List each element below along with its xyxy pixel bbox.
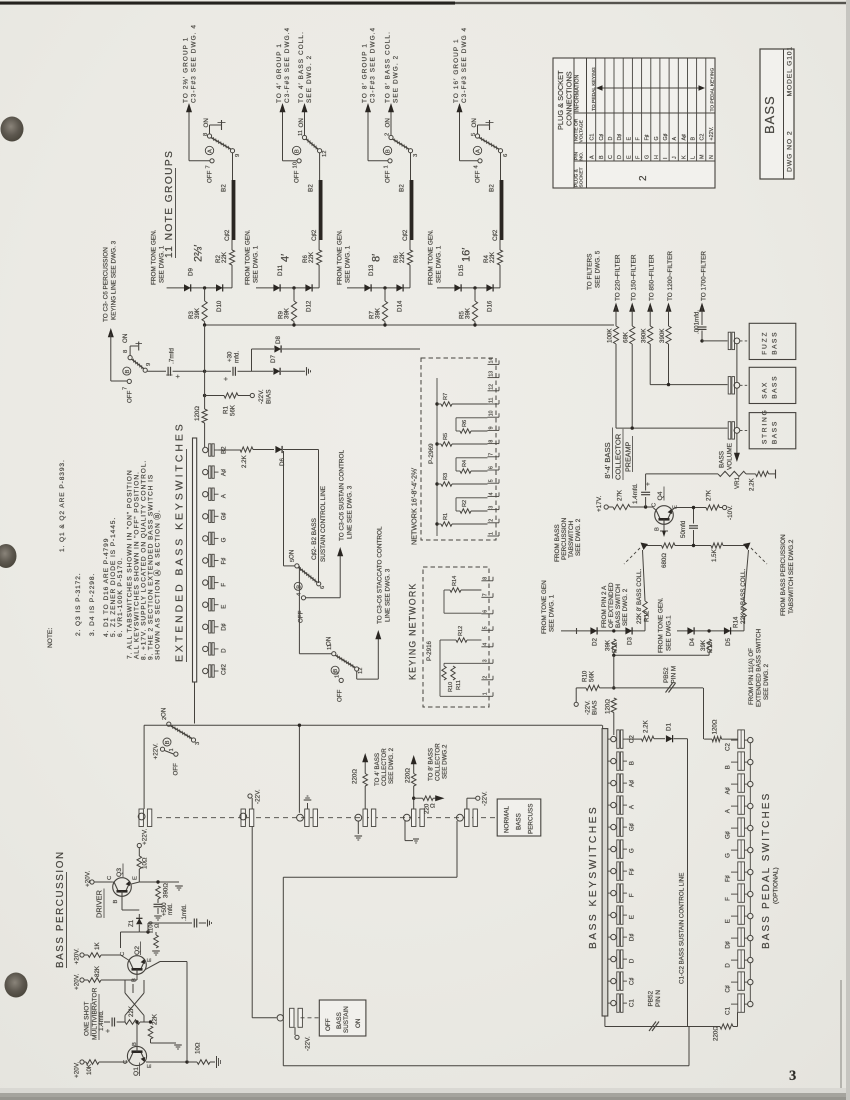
svg-text:C1: C1 [590,134,596,141]
svg-text:SEE DWG. 1: SEE DWG. 1 [549,594,556,632]
svg-text:B: B [386,149,392,153]
bass keyswitch F&#9839; [608,870,611,872]
svg-text:14: 14 [489,358,495,364]
ext keyswitch D [203,646,208,651]
svg-text:NORMAL: NORMAL [504,806,511,833]
svg-text:C♯2: C♯2 [224,229,231,241]
svg-text:2: 2 [385,133,391,136]
svg-text:D12: D12 [306,300,313,312]
svg-text:8′: 8′ [371,254,383,262]
svg-text:50mfd: 50mfd [680,520,687,538]
svg-text:TO 850~FILTER: TO 850~FILTER [649,254,656,301]
svg-text:MULTIVIBRATOR: MULTIVIBRATOR [92,987,99,1040]
svg-text:LINE SEE DWG. 3: LINE SEE DWG. 3 [385,568,392,622]
svg-text:SEE DWG. 1: SEE DWG. 1 [436,245,443,283]
svg-text:Ω: Ω [430,803,437,808]
svg-text:TO PEDAL KEYING: TO PEDAL KEYING [709,68,715,112]
svg-text:6: 6 [489,466,495,469]
svg-text:OFF: OFF [127,390,134,403]
svg-text:22K: 22K [489,251,496,263]
svg-text:TO 8′ BASS: TO 8′ BASS [428,748,435,781]
svg-text:FROM TONE GEN: FROM TONE GEN [541,580,548,634]
svg-text:1.5K: 1.5K [711,548,718,562]
R10 56K / -22V bias / PB52 PIN M [613,655,615,688]
svg-text:SEE DWG. 2: SEE DWG. 2 [388,747,395,784]
svg-text:F: F [221,583,228,587]
ext keyswitch G&#9839; [203,514,208,519]
NORMAL BASS PERCUSS box [497,799,541,836]
svg-text:S T R I N G: S T R I N G [762,410,769,444]
svg-text:+22V.: +22V. [153,743,160,760]
ext keyswitch D&#9839; [203,624,208,629]
svg-text:ON: ON [203,118,210,127]
svg-text:C3-F#3 SEE DWG 4: C3-F#3 SEE DWG 4 [461,27,468,103]
svg-text:G♯: G♯ [725,831,732,839]
one shot Q1 [127,1046,146,1065]
svg-text:Q2: Q2 [134,946,141,955]
svg-text:PIN M: PIN M [671,666,678,684]
svg-text:22K: 22K [221,251,228,263]
svg-text:+: + [175,374,182,378]
svg-text:+20V.: +20V. [74,1061,81,1078]
svg-text:D11: D11 [277,265,284,276]
svg-text:MODEL G101: MODEL G101 [787,46,794,96]
svg-text:B2: B2 [399,184,406,192]
svg-text:FROM BASS PERCUSSION: FROM BASS PERCUSSION [780,534,787,616]
svg-text:EXTENDED BASS KEYSWITCHES: EXTENDED BASS KEYSWITCHES [175,421,186,662]
svg-text:VR1: VR1 [734,476,741,489]
svg-text:680Ω: 680Ω [661,553,668,568]
svg-text:C♯2- B2 BASS: C♯2- B2 BASS [311,518,318,560]
C2 2.2K and D1 to sustain line [627,738,641,740]
svg-text:ON: ON [471,118,478,127]
svg-text:B: B [125,370,131,374]
svg-text:.7mfd: .7mfd [169,348,176,364]
svg-text:SHOWN AS SECTION Ⓐ & SECTION Ⓑ: SHOWN AS SECTION Ⓐ & SECTION Ⓑ. [154,509,162,660]
svg-text:R4: R4 [462,460,468,467]
svg-text:22K: 22K [152,1013,159,1025]
svg-text:R11: R11 [612,642,619,653]
svg-text:R5: R5 [443,433,449,440]
svg-text:TO 4′ BASS: TO 4′ BASS [374,753,381,786]
svg-text:C♯2: C♯2 [492,229,499,241]
svg-text:1: 1 [489,532,495,535]
svg-text:390K: 390K [641,328,648,343]
svg-text:6: 6 [320,586,326,589]
svg-text:ON: ON [298,118,305,127]
svg-text:K: K [681,155,687,159]
svg-text:G: G [629,848,636,853]
svg-text:COLLECTOR: COLLECTOR [381,748,388,786]
svg-text:A: A [208,149,214,153]
svg-text:11: 11 [298,130,304,136]
svg-text:BASS KEYSWITCHES: BASS KEYSWITCHES [588,805,599,949]
svg-text:Q1: Q1 [133,1067,140,1076]
C1-C2 bass sustain control line [687,739,689,1027]
svg-text:SEE DWG. 1: SEE DWG. 1 [345,245,352,283]
svg-text:DRIVER: DRIVER [95,890,104,918]
bass pedal switch F&#9839; [738,862,745,880]
svg-text:11 NOTE GROUPS: 11 NOTE GROUPS [164,150,175,258]
svg-text:-22V.: -22V. [482,791,489,806]
bass pedal switch D&#9839; [738,928,745,946]
svg-text:OFF: OFF [207,170,214,183]
resistor R2 2.2K and diode D6 [219,449,241,451]
svg-text:R14: R14 [733,616,740,628]
svg-text:.001mfd.: .001mfd. [694,310,701,334]
svg-text:D2: D2 [592,638,599,646]
bass keyswitch C2 [608,738,611,740]
svg-text:R14: R14 [452,576,458,586]
svg-text:ONE SHOT: ONE SHOT [84,1002,91,1036]
svg-text:+: + [223,377,230,381]
svg-text:SEE DWG. 2: SEE DWG. 2 [763,663,770,700]
svg-text:COLLECTOR: COLLECTOR [614,433,623,480]
ext keyswitch F&#9839; [203,558,208,563]
svg-text:F: F [629,893,636,897]
switch B (5 ON / 6 / OFF 4) sustain [295,564,299,568]
svg-text:SEE DWG. 2: SEE DWG. 2 [575,518,582,556]
svg-text:D: D [617,155,623,159]
svg-text:4: 4 [489,492,495,495]
1700 filter column with .001mfd [699,303,705,312]
bass keyswitch D [608,958,611,960]
50mfd cap [693,508,695,524]
svg-text:2: 2 [638,175,649,181]
bass pedal switch G [738,840,745,858]
svg-text:PIN N: PIN N [655,990,662,1007]
svg-text:A: A [672,137,678,141]
svg-text:TO 1700~FILTER: TO 1700~FILTER [700,251,707,301]
sax bass line [650,384,727,386]
svg-text:C1-C2 BASS SUSTAIN CONTROL LIN: C1-C2 BASS SUSTAIN CONTROL LINE [679,873,686,984]
svg-text:F♯: F♯ [629,868,636,875]
svg-text:D14: D14 [397,300,404,312]
punch hole middle [0,544,17,568]
svg-text:F♯: F♯ [725,875,732,882]
bass pedal switch C1 [738,994,745,1012]
page edge marks [0,2,455,5]
extended keyswitch bus bar [193,438,197,682]
svg-text:SEE DWG. 2: SEE DWG. 2 [393,55,400,103]
svg-text:mfd.: mfd. [234,351,241,363]
bass sustain tab + box [290,1008,294,1027]
svg-text:F: F [725,897,732,901]
svg-text:8. +17V. SUPPLY LOCATED ON QUA: 8. +17V. SUPPLY LOCATED ON QUALITY CONTR… [141,460,148,660]
svg-text:D♯: D♯ [221,623,228,631]
punch hole bottom [5,973,28,998]
svg-text:8: 8 [203,133,209,136]
svg-text:SUSTAIN: SUSTAIN [343,1006,350,1033]
svg-text:C♯2: C♯2 [402,229,409,241]
svg-text:E: E [629,915,636,919]
ext keyswitch F [203,580,208,585]
svg-text:COLLECTOR: COLLECTOR [435,743,442,781]
svg-text:B: B [655,527,661,531]
svg-text:BIAS: BIAS [592,700,599,715]
svg-text:3: 3 [483,659,489,662]
svg-text:OFF: OFF [294,170,301,183]
svg-text:-10V.: -10V. [727,505,734,520]
cross coupling [125,993,144,1015]
svg-text:ON: ON [289,550,296,559]
svg-text:B: B [691,137,697,141]
ext keyswitch G [203,536,208,541]
svg-text:ON: ON [326,637,333,646]
svg-text:A♯: A♯ [221,469,228,476]
svg-text:2.2K: 2.2K [241,454,248,468]
svg-text:4′: 4′ [280,254,292,262]
svg-text:SEE DWG.2: SEE DWG.2 [442,744,449,779]
svg-text:B2: B2 [308,184,315,192]
svg-text:B: B [725,765,732,769]
svg-text:12: 12 [358,668,364,674]
bass keyswitch E [608,914,611,916]
svg-text:BASS SWITCH: BASS SWITCH [615,584,622,628]
svg-text:22K 8′ BASS COLL.: 22K 8′ BASS COLL. [636,569,643,624]
svg-text:B: B [629,761,636,765]
svg-text:VOLTAGE: VOLTAGE [579,119,585,142]
svg-text:OFF: OFF [385,170,392,183]
svg-text:SEE DWG. 2: SEE DWG. 2 [306,55,313,103]
svg-text:9. THE 2 SECTION EXTENDED BASS: 9. THE 2 SECTION EXTENDED BASS SWITCH IS [148,474,155,660]
ext keyswitch A [203,492,208,497]
svg-text:Q3: Q3 [116,868,123,877]
svg-text:22K 4′ BASS COLL.: 22K 4′ BASS COLL. [740,569,747,624]
svg-text:120Ω: 120Ω [194,406,201,421]
svg-text:NOTE:: NOTE: [47,628,54,648]
svg-text:9: 9 [235,154,241,157]
svg-text:ALL KEYSWITCHES SHOWN IN "OFF": ALL KEYSWITCHES SHOWN IN "OFF" POSITION. [134,471,141,659]
svg-text:-22V.: -22V. [255,789,262,804]
svg-text:Ω: Ω [155,923,161,928]
svg-text:100K: 100K [607,328,614,343]
svg-text:TO PEDAL KEYING: TO PEDAL KEYING [591,67,597,111]
svg-text:SEE DWG. 1: SEE DWG. 1 [253,245,260,283]
680 / 1.5K mixing line [644,545,662,547]
svg-text:R1: R1 [443,513,449,520]
svg-text:BASS: BASS [516,813,523,830]
bass pedal switch D [738,950,745,968]
potentiometer VR1 and resistor 2.2K [646,473,718,475]
svg-text:12: 12 [322,151,328,157]
svg-text:TO 220~FILTER: TO 220~FILTER [614,254,621,301]
svg-text:B A S S: B A S S [772,376,779,399]
svg-text:C3-F#3 SEE DWG.4: C3-F#3 SEE DWG.4 [370,27,377,103]
svg-text:C: C [608,155,614,159]
svg-text:E: E [133,876,139,880]
svg-text:R12: R12 [644,610,651,622]
120 ohm to extended bass [611,698,616,713]
bass pedal switch B [738,752,745,770]
transistor Q4 [655,506,674,525]
svg-text:TO 4′ BASS COLL.: TO 4′ BASS COLL. [298,31,305,103]
svg-text:J: J [672,156,678,159]
svg-text:F U Z Z: F U Z Z [762,332,769,354]
one shot Q2 [128,956,147,975]
svg-text:R11: R11 [456,680,462,690]
svg-text:INFORMATION: INFORMATION [575,75,581,112]
svg-text:TO 4′ GROUP 1: TO 4′ GROUP 1 [276,43,283,103]
svg-text:2.2K: 2.2K [643,719,650,733]
svg-text:TO 8′ GROUP 1: TO 8′ GROUP 1 [362,43,369,103]
svg-text:A: A [476,149,482,153]
svg-text:22K: 22K [399,251,406,263]
svg-text:EXTENDED BASS SWITCH: EXTENDED BASS SWITCH [756,629,763,707]
svg-text:6: 6 [503,154,509,157]
svg-text:1: 1 [483,692,489,695]
svg-text:R3: R3 [443,473,449,480]
svg-text:+30: +30 [227,351,234,362]
svg-text:C3-F#3 SEE DWG. 4: C3-F#3 SEE DWG. 4 [191,24,198,103]
svg-text:VOLUME: VOLUME [727,443,734,470]
ext keyswitch C&#9839;2 [203,668,208,673]
svg-text:1: 1 [384,165,390,168]
fuzz/sax/string tab contacts + boxes [728,332,731,349]
svg-text:2: 2 [483,676,489,679]
svg-text:D♯: D♯ [725,941,732,949]
svg-text:27K: 27K [617,489,624,501]
svg-text:R7: R7 [443,393,449,400]
svg-text:TO 2⅔′ GROUP 1: TO 2⅔′ GROUP 1 [183,37,190,103]
svg-text:D: D [608,137,614,141]
svg-text:TO 150~FILTER: TO 150~FILTER [631,254,638,301]
svg-text:+20V.: +20V. [74,973,81,990]
svg-text:M: M [700,154,706,159]
svg-text:A♯: A♯ [725,787,732,794]
svg-text:2⅔′: 2⅔′ [193,245,205,262]
svg-text:I: I [663,158,669,160]
svg-text:-22V.: -22V. [305,1036,312,1051]
svg-text:SEE DWG.1: SEE DWG.1 [666,615,673,651]
svg-text:+22V.: +22V. [142,828,149,845]
svg-text:10: 10 [293,162,299,168]
svg-text:L: L [691,156,697,159]
svg-text:22K: 22K [128,1005,135,1017]
svg-text:(OPTIONAL): (OPTIONAL) [773,867,780,904]
svg-text:NETWORK 16′-8′-4′-2⅔′: NETWORK 16′-8′-4′-2⅔′ [410,467,419,545]
bass pedal switch G&#9839; [738,818,745,836]
svg-text:D7: D7 [270,355,277,363]
svg-text:R10: R10 [582,670,589,682]
plug & socket connections table [553,58,715,188]
bottom line with PB52 PIN N + 220 [604,1016,606,1027]
svg-text:G: G [645,155,651,159]
svg-text:PB52: PB52 [663,667,670,683]
svg-text:13: 13 [489,371,495,377]
bass keyswitch D&#9839; [608,936,611,938]
svg-text:10K: 10K [86,1063,93,1075]
bass keyswitch A&#9839; [608,782,611,784]
svg-text:+: + [105,1029,112,1033]
svg-text:7: 7 [206,165,212,168]
svg-text:B: B [295,149,301,153]
svg-text:10Ω: 10Ω [142,857,149,869]
string bass line [616,427,728,429]
svg-text:C♯: C♯ [725,985,732,993]
svg-text:CONNECTIONS: CONNECTIONS [565,71,574,126]
svg-text:D16: D16 [487,300,494,312]
svg-text:FROM TONE GEN.: FROM TONE GEN. [658,597,665,653]
svg-text:B2: B2 [489,184,496,192]
resistor R1 56K to -22V bias terminal [205,395,224,397]
svg-text:D9: D9 [188,268,195,276]
filter column 390K [647,303,653,312]
svg-text:C♯2: C♯2 [311,229,318,241]
svg-text:22K: 22K [308,251,315,263]
svg-text:390K: 390K [659,328,666,343]
svg-text:G: G [654,136,660,140]
svg-text:-22V.: -22V. [258,389,265,404]
svg-text:G♯: G♯ [221,512,228,520]
svg-text:R10: R10 [448,682,454,692]
svg-text:ON: ON [355,1018,362,1028]
svg-text:39K: 39K [284,307,291,319]
svg-text:BIAS: BIAS [266,389,273,404]
svg-text:TABSWITCH SEE DWG.2: TABSWITCH SEE DWG.2 [788,539,795,614]
bass pedal switch F [738,884,745,902]
svg-text:1. Q1 & Q2 ARE P-8393.: 1. Q1 & Q2 ARE P-8393. [59,459,66,552]
svg-text:8: 8 [123,350,129,353]
svg-text:ON: ON [385,118,392,127]
svg-text:SEE DWG. 5: SEE DWG. 5 [595,250,602,288]
svg-text:FROM TONE GEN.: FROM TONE GEN. [151,229,158,285]
svg-text:OFF: OFF [173,763,180,776]
svg-text:C♯: C♯ [599,134,605,141]
svg-text:39K: 39K [700,639,707,651]
bass keyswitch F [608,892,611,894]
svg-text:BASS: BASS [762,95,777,134]
svg-text:PREAMP: PREAMP [624,441,633,472]
svg-text:+17V.: +17V. [596,495,603,512]
bass keyswitch C1 [608,1002,611,1004]
ext keyswitch E [203,602,208,607]
long percussion enclosure wires [283,876,457,878]
sustain control line [318,450,320,584]
svg-text:7: 7 [123,387,129,390]
svg-text:5: 5 [489,479,495,482]
svg-text:PB52: PB52 [648,990,655,1006]
svg-text:220Ω: 220Ω [713,1026,720,1041]
svg-text:390Ω: 390Ω [163,883,170,898]
svg-text:TO C3-C6 SUSTAIN CONTROL: TO C3-C6 SUSTAIN CONTROL [339,450,346,541]
svg-text:R1: R1 [223,406,230,414]
svg-text:FROM TONE GEN.: FROM TONE GEN. [428,229,435,285]
svg-text:B: B [165,740,171,744]
svg-text:SOCKET: SOCKET [579,167,585,187]
svg-text:OFF: OFF [475,170,482,183]
svg-text:-22V.: -22V. [585,700,592,715]
svg-text:H: H [654,155,660,159]
svg-text:SUSTAIN CONTROL LINE: SUSTAIN CONTROL LINE [320,486,327,562]
svg-text:DWG NO 2: DWG NO 2 [787,130,794,172]
svg-text:C2: C2 [725,743,732,751]
svg-text:E: E [221,605,228,609]
svg-text:A♯: A♯ [681,134,687,141]
svg-text:+22V.: +22V. [709,127,715,141]
svg-text:27K: 27K [706,489,713,501]
svg-text:4: 4 [483,643,489,646]
bass pedal switch A [738,796,745,814]
switch B (8 ON / 9 / OFF 7) [127,379,131,383]
svg-text:D: D [221,648,228,653]
bass keyswitch G&#9839; [608,826,611,828]
svg-text:82K: 82K [94,965,101,977]
svg-text:Q4: Q4 [657,491,664,500]
svg-text:220Ω: 220Ω [352,769,359,784]
svg-text:1K: 1K [94,942,101,950]
svg-text:+20V.: +20V. [74,948,81,965]
